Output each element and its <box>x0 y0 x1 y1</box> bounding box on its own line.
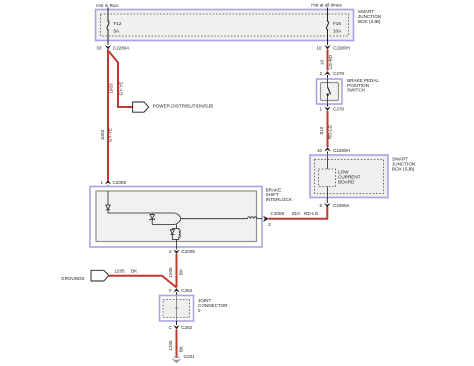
connector arrow C262 pin F <box>169 288 193 293</box>
svg-text:10: 10 <box>319 60 324 66</box>
svg-text:C2008: C2008 <box>271 211 285 216</box>
svg-text:1205: 1205 <box>115 268 126 273</box>
svg-text:C262: C262 <box>181 288 192 293</box>
wire stub below switch <box>327 104 329 107</box>
wire stub below SJB2 <box>326 198 328 204</box>
svg-text:Hot at all times: Hot at all times <box>311 3 342 8</box>
svg-text:33: 33 <box>96 46 102 51</box>
switch symbol <box>327 79 331 104</box>
wire diode to h-line <box>108 210 175 213</box>
wire F15 to box edge <box>327 30 329 45</box>
svg-text:810: 810 <box>292 211 300 216</box>
svg-text:BOX (SJB): BOX (SJB) <box>358 19 381 24</box>
label JOINT CONNECTOR 2 <box>198 298 228 313</box>
fuse F15 <box>327 20 343 33</box>
wire red RD-LG switch to SJB <box>327 111 329 147</box>
svg-text:1205: 1205 <box>168 267 173 278</box>
svg-text:16: 16 <box>317 148 323 153</box>
low current board <box>319 169 361 187</box>
wire stub below joint connector <box>176 321 178 325</box>
wire inside interlock from pin1 <box>107 191 109 205</box>
wire into fuse F12 <box>107 8 109 21</box>
svg-text:5: 5 <box>319 203 322 208</box>
svg-text:LG-RD: LG-RD <box>328 54 333 69</box>
wire into low current board <box>327 155 329 169</box>
ground G201 <box>172 359 182 364</box>
svg-text:1: 1 <box>319 107 322 112</box>
svg-text:BOARD: BOARD <box>338 180 355 185</box>
svg-text:C2008: C2008 <box>181 249 195 254</box>
connector arrow C2280H pin 16 <box>317 147 350 153</box>
connector arrow C2280A pin 5 <box>319 203 350 208</box>
svg-text:SWITCH: SWITCH <box>347 88 365 93</box>
svg-text:Hot in Run: Hot in Run <box>96 3 118 8</box>
svg-text:C2280A: C2280A <box>333 203 351 208</box>
svg-text:F: F <box>169 288 172 293</box>
driver converge symbol <box>175 213 182 225</box>
label 1205 BK horizontal <box>115 268 139 273</box>
wire red BK to ground <box>176 330 178 359</box>
svg-text:INTERLOCK: INTERLOCK <box>266 197 293 202</box>
wire stub into interlock box <box>107 185 109 191</box>
connector arrow C262 pin C <box>169 325 193 330</box>
svg-text:810: 810 <box>319 126 324 134</box>
wire red 810 RD-LG from interlock to SJB <box>269 207 328 219</box>
label SMART JUNCTION BOX (SJB) top <box>358 9 381 24</box>
svg-text:C2280H: C2280H <box>333 148 350 153</box>
connector arrow C278 pin 1 <box>319 107 344 112</box>
svg-text:5A: 5A <box>114 28 121 33</box>
coil L1 <box>248 217 258 219</box>
svg-text:BK: BK <box>178 345 183 352</box>
svg-text:BK: BK <box>131 268 138 273</box>
svg-text:10A: 10A <box>333 28 342 33</box>
wire driver output <box>181 218 248 220</box>
svg-text:GY-YE: GY-YE <box>118 82 123 96</box>
off-page connector GROUNDS <box>91 270 109 281</box>
svg-text:RD-LG: RD-LG <box>328 124 333 139</box>
svg-text:C262: C262 <box>181 325 192 330</box>
connector arrow C2008 pin 2 <box>169 249 195 254</box>
off-page connector POWER DISTRIBUTION/SJB <box>133 102 214 112</box>
svg-text:2: 2 <box>169 249 172 254</box>
wire stub into SJB2 <box>327 152 329 156</box>
svg-text:CONNECTOR: CONNECTOR <box>198 303 228 308</box>
svg-text:3: 3 <box>268 222 271 227</box>
wire into fuse F15 <box>327 8 329 21</box>
wire zener lower h-line <box>152 224 174 226</box>
svg-text:C278: C278 <box>333 71 344 76</box>
svg-text:2: 2 <box>198 308 201 313</box>
wire red main left GY/YE <box>107 50 109 181</box>
joint connector 2 box <box>160 296 194 322</box>
svg-text:POWER DISTRIBUTION/SJB: POWER DISTRIBUTION/SJB <box>153 104 214 109</box>
wire branch to power distribution <box>108 51 133 108</box>
svg-text:BOX (SJB): BOX (SJB) <box>392 167 415 172</box>
wire stub into switch box <box>327 75 329 79</box>
smart junction box (SJB) top box <box>96 10 354 41</box>
wire solenoid to box bottom <box>176 240 178 250</box>
solenoid with clamp diode <box>170 229 180 240</box>
svg-text:RD-LG: RD-LG <box>304 211 319 216</box>
brake shift interlock box <box>90 187 262 248</box>
svg-text:GROUNDS: GROUNDS <box>61 276 84 281</box>
exit arrow C2008 pin 3 <box>263 211 284 227</box>
connector arrow C2008 pin 1 <box>100 180 126 185</box>
svg-text:10: 10 <box>316 46 322 51</box>
wire low current board to box bottom <box>327 187 329 198</box>
wire stub into joint connector <box>176 292 178 296</box>
svg-text:C2280H: C2280H <box>333 46 350 51</box>
svg-text:1: 1 <box>100 180 103 185</box>
svg-text:C278: C278 <box>333 107 344 112</box>
wire red grounds branch <box>109 276 177 288</box>
wire F12 to box edge <box>107 30 109 45</box>
wire red BK pin2 down <box>176 254 178 288</box>
fuse F12 <box>107 20 122 33</box>
svg-text:F12: F12 <box>114 21 122 26</box>
svg-text:BK: BK <box>178 268 183 275</box>
svg-text:C2280A: C2280A <box>113 46 131 51</box>
svg-text:C2008: C2008 <box>113 180 127 185</box>
svg-text:1205: 1205 <box>168 340 173 351</box>
zener diode D2 <box>149 213 155 225</box>
wire coil to box edge <box>257 218 262 220</box>
svg-text:2: 2 <box>319 71 322 76</box>
brake pedal position switch box <box>317 79 343 104</box>
smart junction box (SJB) lower box <box>310 155 388 198</box>
svg-text:1003: 1003 <box>100 129 105 140</box>
label BRAKE SHIFT INTERLOCK <box>266 187 293 202</box>
diode D1 <box>106 205 110 210</box>
wire red LG-RD fuse to switch <box>327 50 329 71</box>
label BRAKE PEDAL POSITION SWITCH <box>347 78 379 93</box>
connector arrow C2280A pin 33 <box>96 45 130 51</box>
svg-text:F15: F15 <box>333 21 341 26</box>
svg-text:G201: G201 <box>184 354 196 359</box>
wire drop to solenoid <box>176 225 178 229</box>
label SMART JUNCTION BOX (SJB) lower <box>392 157 415 172</box>
label 810 RD-LG right of interlock <box>292 211 319 216</box>
svg-text:1003: 1003 <box>109 83 114 94</box>
connector arrow C2280H pin 10 <box>316 45 349 51</box>
connector arrow C278 pin 2 <box>319 71 344 76</box>
svg-text:GY-YE: GY-YE <box>108 128 113 142</box>
